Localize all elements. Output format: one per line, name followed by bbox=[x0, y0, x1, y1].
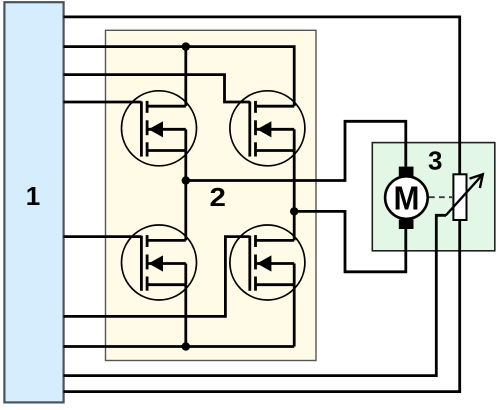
wire: drain rail bbox=[64, 47, 295, 107]
wire: Q4 source drop bbox=[293, 285, 296, 347]
transistor Q1 (top-left N-MOSFET) bbox=[122, 91, 197, 166]
load block 3 bbox=[372, 143, 495, 251]
wire: output A vertical Q1-Q3 bbox=[184, 151, 187, 241]
transistor Q4 (bottom-right N-MOSFET) bbox=[230, 225, 305, 300]
svg-text:M: M bbox=[394, 180, 420, 217]
mechanical coupling dashed link bbox=[429, 196, 452, 198]
node: output A junction bbox=[182, 176, 190, 184]
wire: gate Q1 bbox=[64, 101, 142, 104]
H-bridge block 2 bbox=[106, 30, 317, 360]
wire: gate Q2 bbox=[64, 75, 250, 102]
node: output B junction bbox=[290, 207, 298, 215]
transistor Q2 (top-right N-MOSFET) bbox=[230, 91, 305, 166]
svg-text:2: 2 bbox=[210, 182, 226, 212]
wire: potentiometer bottom return bbox=[64, 220, 460, 392]
wire: gate Q3 bbox=[64, 235, 142, 238]
wire: supply to potentiometer top bbox=[64, 17, 460, 174]
svg-text:3: 3 bbox=[428, 145, 442, 175]
controller block 1 bbox=[4, 2, 63, 402]
wire: gate Q4 bbox=[64, 237, 250, 317]
potentiometer arrow bbox=[446, 176, 482, 216]
transistor Q3 (bottom-left N-MOSFET) bbox=[122, 225, 197, 300]
wire: source rail bbox=[64, 345, 295, 348]
wire: output B to motor minus bbox=[294, 211, 406, 271]
wire: Q3 source drop bbox=[184, 285, 187, 347]
potentiometer body bbox=[453, 174, 466, 220]
wire: output A to motor plus bbox=[186, 121, 406, 180]
motor M bottom brush bbox=[399, 220, 414, 229]
motor M body bbox=[385, 176, 428, 219]
wire: drain rail drop to Q1 bbox=[184, 47, 187, 107]
wire: wiper feedback bbox=[64, 215, 447, 375]
node: source rail junction bbox=[182, 342, 190, 350]
wire: output B vertical Q2-Q4 bbox=[293, 151, 296, 241]
svg-text:1: 1 bbox=[26, 181, 40, 211]
node: drain rail junction bbox=[182, 42, 190, 50]
motor M top brush bbox=[399, 167, 414, 176]
